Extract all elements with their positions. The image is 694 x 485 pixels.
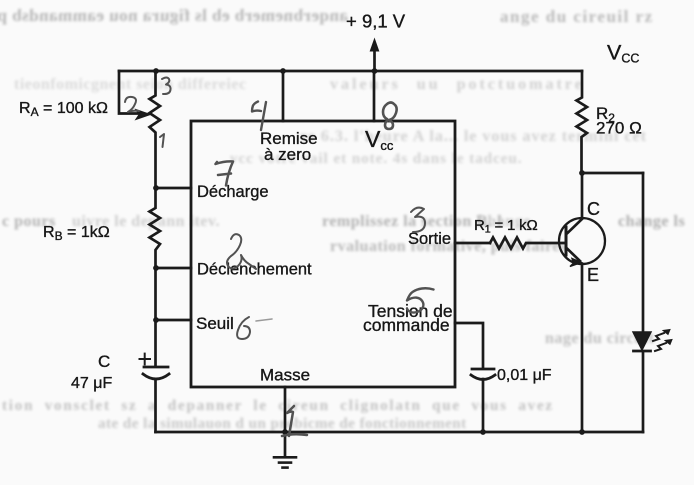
resistor RB bbox=[150, 188, 161, 365]
node R2 bottom bbox=[579, 170, 585, 176]
wire top rail bbox=[119, 70, 582, 73]
handwritten 3 pin 3 bbox=[411, 208, 425, 232]
handwritten 2 wiper bbox=[125, 97, 139, 112]
handwritten 8 pin 8 bbox=[383, 103, 397, 130]
svg-text:270 Ω: 270 Ω bbox=[596, 119, 642, 138]
LED light arrow 2 bbox=[655, 340, 672, 352]
bleed-through text row 3 bbox=[300, 128, 647, 146]
wire branch to LED bbox=[582, 172, 643, 175]
capacitor 0,01uF plates bbox=[471, 369, 495, 380]
wire left drop to wiper bbox=[119, 71, 138, 114]
svg-text:E: E bbox=[587, 265, 599, 285]
svg-text:à zero: à zero bbox=[264, 145, 311, 164]
transistor Q1 circle bbox=[559, 218, 605, 264]
potentiometer RA wiper arrow bbox=[137, 110, 150, 119]
svg-text:Masse: Masse bbox=[260, 366, 310, 385]
node emitter rail bbox=[579, 429, 585, 435]
bleed-through text row 2 bbox=[14, 76, 247, 94]
handwritten 6 pin 6 bbox=[237, 317, 250, 339]
resistor R1 bbox=[490, 238, 565, 249]
wire pin 4 to rail bbox=[282, 71, 285, 121]
LED light arrow 1 bbox=[653, 330, 670, 342]
wire Tension de commande stub bbox=[455, 323, 483, 367]
svg-text:Déclenchement: Déclenchement bbox=[197, 261, 312, 279]
wire bottom rail bbox=[156, 431, 644, 434]
handwritten 3 pin3? top of pot bbox=[162, 78, 171, 95]
supply +9,1V arrow bbox=[373, 49, 376, 71]
node cap 0,01uF rail bbox=[480, 429, 486, 435]
transistor Q1 base bar bbox=[565, 227, 568, 255]
svg-text:VCC: VCC bbox=[607, 41, 639, 66]
wire R2 to collector bbox=[581, 173, 584, 218]
transistor Q1 emitter arrow bbox=[570, 259, 582, 267]
IC U1 555 box bbox=[191, 121, 455, 387]
svg-text:commande: commande bbox=[363, 315, 450, 335]
node Declenchement bbox=[153, 265, 159, 271]
svg-text:RB = 1kΩ: RB = 1kΩ bbox=[43, 224, 110, 243]
potentiometer RA body bbox=[150, 71, 161, 188]
bleed-through text row 1 bbox=[0, 6, 348, 26]
svg-text:C: C bbox=[98, 352, 110, 371]
node Seuil bbox=[153, 317, 159, 323]
handwritten 2 pin 2 bbox=[227, 234, 256, 269]
wire pin 8 to rail bbox=[373, 71, 376, 121]
handwritten 4 pin 4 bbox=[252, 102, 266, 131]
transistor Q1 collector line bbox=[567, 219, 582, 234]
wire 0,01uF to bottom rail bbox=[482, 379, 485, 432]
svg-text:C: C bbox=[587, 199, 600, 219]
svg-text:0,01 μF: 0,01 μF bbox=[497, 367, 552, 384]
LED D1 triangle bbox=[633, 332, 651, 350]
handwritten pencil dash after 6 bbox=[256, 319, 272, 321]
bleed-through text row 9 bbox=[98, 416, 467, 433]
transistor Q1 emitter line bbox=[567, 249, 580, 262]
resistor R2 bbox=[577, 71, 588, 173]
bleed-through text row 7 bbox=[545, 330, 654, 348]
node Masse ground bbox=[282, 429, 288, 435]
wire Seuil stub bbox=[156, 319, 192, 322]
svg-text:Seuil: Seuil bbox=[196, 314, 234, 333]
svg-text:Décharge: Décharge bbox=[197, 183, 269, 201]
wire Masse pin to rail bbox=[284, 387, 287, 432]
wire Decharge stub bbox=[156, 187, 192, 190]
bleed-through text row 6 bbox=[330, 238, 567, 256]
wire Sortie stub bbox=[455, 242, 490, 245]
node Decharge bbox=[153, 185, 159, 191]
handwritten 7 pin 7 bbox=[216, 161, 234, 185]
capacitor C plus sign bbox=[140, 354, 151, 365]
bleed-through text row 4 bbox=[230, 151, 523, 168]
bleed-through text row 5 bbox=[2, 213, 56, 231]
ground bbox=[284, 432, 287, 456]
capacitor C plates bbox=[143, 367, 169, 379]
node pot top bbox=[153, 68, 159, 74]
svg-text:47 μF: 47 μF bbox=[71, 375, 112, 392]
wire LED to bottom rail bbox=[642, 352, 645, 432]
wire Declenchement stub bbox=[156, 267, 192, 270]
node pin4 rail bbox=[280, 68, 286, 74]
bleed-through text row 8 bbox=[2, 398, 554, 415]
wire LED branch down bbox=[642, 173, 645, 332]
svg-text:+ 9,1 V: + 9,1 V bbox=[346, 11, 406, 32]
node pin8 rail bbox=[372, 68, 378, 74]
svg-text:R1 = 1 kΩ: R1 = 1 kΩ bbox=[474, 217, 537, 236]
svg-text:RA = 100 kΩ: RA = 100 kΩ bbox=[19, 100, 108, 119]
wire cap C to bottom rail bbox=[154, 379, 157, 432]
handwritten 1 pot bottom bbox=[160, 134, 164, 147]
wire emitter down bbox=[581, 264, 584, 432]
LED D1 cathode bar bbox=[634, 350, 651, 353]
handwritten 5 pin 5 bbox=[407, 288, 434, 312]
handwritten 1 pin 1 bbox=[282, 406, 307, 436]
